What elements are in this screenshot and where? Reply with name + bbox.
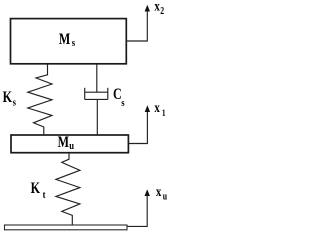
svg-text:u: u bbox=[163, 190, 167, 201]
svg-text:M: M bbox=[59, 32, 70, 49]
svg-text:s: s bbox=[13, 97, 16, 109]
svg-text:x: x bbox=[154, 100, 160, 116]
svg-text:1: 1 bbox=[162, 107, 166, 118]
svg-text:C: C bbox=[113, 87, 122, 104]
svg-text:s: s bbox=[121, 97, 124, 109]
svg-text:s: s bbox=[72, 37, 75, 49]
svg-text:M: M bbox=[58, 135, 69, 152]
svg-text:K: K bbox=[3, 90, 13, 107]
svg-text:2: 2 bbox=[160, 5, 164, 16]
svg-text:u: u bbox=[69, 140, 74, 152]
svg-text:x: x bbox=[156, 184, 162, 200]
svg-text:K: K bbox=[31, 181, 41, 198]
